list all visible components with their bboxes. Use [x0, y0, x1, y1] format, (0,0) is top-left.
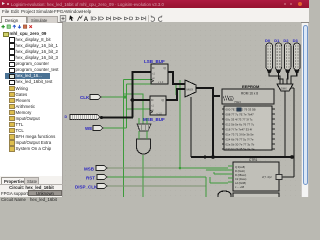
pin DISP_CLK [75, 184, 107, 190]
svg-text:c ←+08: c ←+08 [235, 185, 245, 189]
main toolbar icons [58, 14, 168, 23]
wire RST row [107, 176, 206, 178]
wire reg1-reg2 green [175, 85, 177, 95]
wire counter right stub [279, 157, 294, 177]
wire mux select [190, 97, 192, 157]
wire MSB row [107, 167, 180, 169]
pin WE [85, 126, 103, 132]
led bar connector stubs [267, 70, 300, 73]
mux U1 [185, 80, 196, 97]
svg-text:RST: RST [86, 176, 95, 181]
svg-text:D3: D3 [293, 38, 299, 43]
circuit canvas [63, 22, 301, 197]
svg-text:030 6d 79 38 5e 0e 3e: 030 6d 79 38 5e 0e 3e [226, 147, 255, 151]
wire right edge drop [289, 88, 294, 157]
led bar D3 [293, 38, 301, 70]
node CLK junction [124, 96, 127, 99]
svg-text:D: D [65, 115, 68, 119]
node bottom junction 2 [290, 155, 294, 159]
svg-text:v 1.0: v 1.0 [157, 113, 163, 116]
menu bar [0, 8, 309, 15]
svg-text:00c 33 4f 73 77 3f 7c: 00c 33 4f 73 77 3f 7c [226, 118, 254, 122]
svg-text:v 1.0: v 1.0 [158, 81, 164, 84]
bus bottom row [191, 156, 294, 158]
svg-text:C2 (0xee): C2 (0xee) [235, 177, 247, 181]
led bar D0 [265, 38, 273, 70]
left explorer panel [0, 23, 63, 176]
wire AND output [142, 155, 144, 197]
register LSB_BUF [144, 59, 168, 84]
project tree [0, 22, 62, 24]
pin MSB [84, 166, 107, 172]
wire demux down [284, 91, 286, 157]
wire led D0 to demux [269, 70, 280, 84]
eeprom contents grid [222, 106, 275, 151]
svg-text:024 6b 76 77 5c 7f 7e: 024 6b 76 77 5c 7f 7e [226, 138, 254, 142]
led bar D2 [283, 38, 291, 70]
svg-text:R (0xeb): R (0xeb) [235, 169, 245, 173]
svg-text:MSB: MSB [84, 167, 95, 172]
wire to LSB_BUF clock [124, 79, 152, 81]
wire led D1 to demux [279, 70, 284, 84]
svg-text:DISP_CLK: DISP_CLK [75, 185, 98, 190]
register MSB_BUF [143, 96, 166, 122]
wire feedback vertical [179, 80, 181, 168]
wire MSB row bright part [180, 167, 228, 169]
wire WE horizontal [103, 127, 127, 129]
bus riser to bottom bus [212, 88, 214, 157]
splitter below MSB_BUF [137, 118, 151, 131]
svg-text:018 7f 7e 7e47 33 4f: 018 7f 7e 7e47 33 4f [226, 128, 253, 132]
wire counter steps [206, 170, 228, 197]
wire WE riser [142, 94, 144, 124]
svg-text:D2: D2 [283, 38, 289, 43]
svg-text:CLK: CLK [80, 95, 90, 100]
svg-text:R (08xec): R (08xec) [235, 173, 246, 177]
eeprom ROM header box [222, 84, 274, 104]
wire CLK vertical long [123, 80, 125, 198]
wire WE vertical [126, 84, 128, 128]
demux for led bars [277, 84, 293, 91]
pin CLK [80, 95, 101, 101]
svg-text:012 5b 5e 6c 76 77 7c: 012 5b 5e 6c 76 77 7c [226, 123, 255, 127]
svg-text:7SE3: 7SE3 [234, 100, 241, 104]
bus to LSB_BUF D [132, 71, 152, 73]
canvas vertical scrollbar [301, 23, 309, 197]
svg-text:008 77 7c 7E 7e 7b47: 008 77 7c 7E 7e 7b47 [226, 113, 255, 117]
svg-text:MSB_BUF: MSB_BUF [143, 117, 165, 122]
node bus junction [131, 98, 135, 102]
svg-text:CTR1: CTR1 [249, 158, 258, 162]
wire to MSB_BUF clock [127, 108, 151, 110]
explorer mini toolbar [1, 24, 44, 31]
svg-text:LSB_BUF: LSB_BUF [144, 59, 165, 64]
bottom properties panel [0, 176, 63, 197]
node pin tip [100, 116, 103, 119]
led bar D1 [274, 38, 282, 70]
svg-text:D0: D0 [265, 38, 271, 43]
svg-text:Q 0(xe8): Q 0(xe8) [235, 165, 245, 169]
svg-text:EEPROM: EEPROM [242, 84, 260, 89]
svg-text:ROM 16 x 8: ROM 16 x 8 [241, 92, 258, 96]
bus to MSB_BUF D [132, 99, 151, 101]
and gate facing down [137, 131, 151, 154]
wire DISP_CLK row [107, 185, 206, 187]
node bottom junction 1 [211, 155, 215, 159]
toolbar row with Design/Simulate tabs [0, 15, 309, 23]
svg-text:01e 73 71 3f 0e 3b 5e: 01e 73 71 3f 0e 3b 5e [226, 133, 255, 137]
component below counter (cut off) [233, 193, 279, 199]
svg-text:Ld (0x08): Ld (0x08) [235, 181, 246, 185]
window title bar [0, 0, 309, 8]
node feedback junction [179, 167, 182, 170]
svg-text:2(7..0)2: 2(7..0)2 [262, 175, 272, 179]
pin D 16-bit input [65, 115, 101, 121]
svg-text:WE: WE [85, 126, 92, 131]
wire to LSB_BUF enable [127, 83, 152, 85]
svg-text:DMX: DMX [281, 87, 287, 91]
wire reg row [124, 93, 144, 95]
bus LSB_BUF Q to mux [168, 72, 185, 84]
gate top at bottom edge [218, 191, 231, 197]
bus MSB_BUF Q to mux [166, 89, 185, 100]
bus mux output [196, 88, 220, 96]
wire led D3 to demux [291, 70, 297, 84]
wire led D2 to demux [286, 70, 289, 84]
pin RST [86, 175, 107, 181]
bus from 16-bit input pin [100, 117, 133, 119]
node bottom junction 1b [203, 155, 206, 158]
svg-text:D1: D1 [274, 38, 280, 43]
svg-text:MUX: MUX [187, 88, 194, 92]
counter CTR box [228, 158, 282, 191]
bus riser to registers [132, 72, 134, 118]
wire CLK horizontal [101, 96, 126, 98]
